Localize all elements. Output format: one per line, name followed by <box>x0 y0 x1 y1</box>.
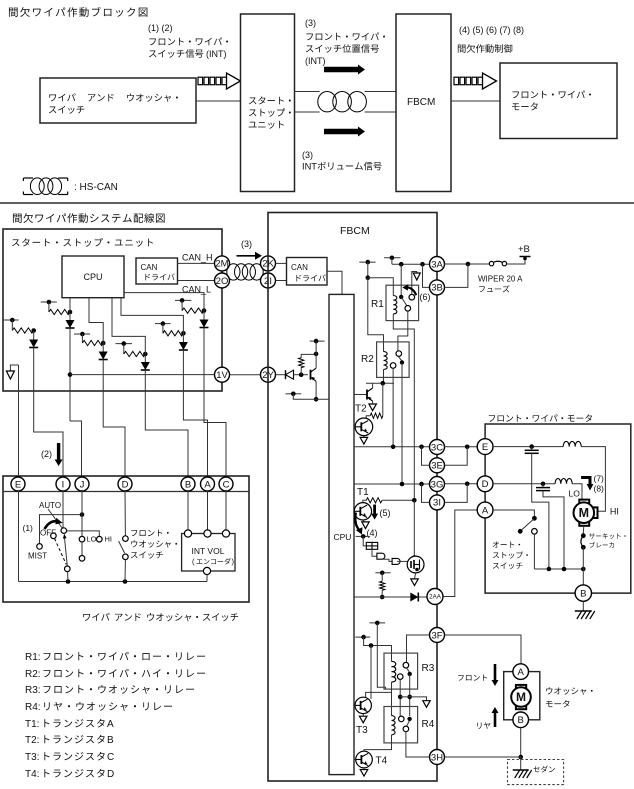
svg-text:3C: 3C <box>431 442 443 453</box>
HI contact <box>97 536 103 542</box>
E line with capacitor <box>493 446 563 448</box>
FBCM box (wiring) <box>268 213 437 782</box>
svg-text:(5): (5) <box>380 508 391 518</box>
T4 emitter ground <box>363 768 365 770</box>
svg-text:R2: R2 <box>361 354 374 365</box>
wire R2 NO to 3C line <box>392 368 394 447</box>
svg-text:T1:: T1: <box>25 719 39 730</box>
encoder grid component <box>363 536 366 546</box>
svg-text:2O: 2O <box>216 276 229 287</box>
svg-text:I: I <box>62 479 65 490</box>
wires B A C to INT VOL <box>187 491 189 530</box>
label rear with arrow <box>477 722 490 729</box>
3C line <box>354 446 430 448</box>
T1 collector resistor <box>363 500 366 502</box>
svg-text:FBCM: FBCM <box>407 97 435 108</box>
R1 NC contact and float marker <box>409 294 415 300</box>
svg-text:R1:: R1: <box>25 652 41 663</box>
wire unit B to J with 1V junction <box>69 328 71 421</box>
T3 emitter ground <box>362 714 364 717</box>
svg-text:HI: HI <box>610 507 619 517</box>
bottom rail <box>19 581 208 583</box>
front washer switch: wire D <box>124 491 126 536</box>
svg-text:INT: INT <box>302 162 317 172</box>
2Y pull-up resistor <box>299 358 304 368</box>
connector 2Y <box>261 367 276 382</box>
output MOSFET <box>413 500 415 557</box>
3G line <box>354 483 430 485</box>
svg-text:R3:: R3: <box>25 685 41 696</box>
wire 3F to R3 contact <box>407 635 430 662</box>
svg-text:M: M <box>516 690 526 704</box>
svg-text:LO: LO <box>87 535 97 544</box>
svg-text:R1: R1 <box>371 299 384 310</box>
R3 coil to T3 and R4 coil <box>366 682 392 698</box>
T2 rail stub <box>366 382 394 384</box>
wire 3E to 3C line (inside) <box>422 447 430 466</box>
3A rail <box>392 263 430 265</box>
INT VOL bottom contact <box>203 567 210 574</box>
svg-text:3H: 3H <box>431 752 443 763</box>
svg-text:CPU: CPU <box>334 532 352 542</box>
dashed line OFF to moving contact <box>55 539 67 565</box>
terminal A <box>477 502 493 518</box>
CAN driver (FBCM) <box>287 258 328 286</box>
wire to LO brush <box>572 484 582 500</box>
auto-stop switch <box>532 516 537 521</box>
R3 rail stub 1 <box>369 622 385 624</box>
connector 3I <box>430 495 445 510</box>
label front with arrow <box>458 674 487 680</box>
transistor T3 <box>355 697 371 713</box>
svg-text:E: E <box>482 442 488 453</box>
wire R2 common to 3G line <box>401 363 403 485</box>
svg-text:3B: 3B <box>431 283 443 294</box>
washer motor M <box>516 685 526 689</box>
arrow right (3) top <box>324 65 365 75</box>
svg-text:B: B <box>185 479 191 490</box>
svg-text:(INT): (INT) <box>206 49 227 59</box>
digital signal symbol 2 <box>454 77 483 85</box>
wire FBCM to front wiper motor <box>451 100 500 102</box>
washer switch lower contact <box>123 554 129 560</box>
svg-text:3G: 3G <box>431 479 444 490</box>
connector E <box>11 477 25 491</box>
svg-text:2M: 2M <box>215 259 228 270</box>
wire stub1 down to R2 coil <box>368 278 384 352</box>
CAN driver (start-stop unit) <box>136 258 178 284</box>
label (5) arrow <box>371 505 378 520</box>
connector B <box>181 477 195 491</box>
svg-text:INT VOL: INT VOL <box>192 546 225 556</box>
svg-text:A: A <box>204 479 211 490</box>
logic buffer 1 <box>372 549 377 556</box>
svg-text:MIST: MIST <box>28 552 47 561</box>
inductor E line <box>563 441 581 446</box>
2Y lower stub <box>286 393 302 395</box>
connector 3A <box>430 257 445 272</box>
svg-text:(7): (7) <box>594 474 605 484</box>
transistor T2 <box>355 418 373 436</box>
T2 driver transistor <box>354 394 367 396</box>
wire A to auto-stop switch <box>493 510 534 516</box>
wire 3C to E with 3E jog <box>445 446 478 448</box>
washer terminal B <box>513 712 529 728</box>
HI rail <box>67 531 100 537</box>
washer terminal A <box>513 664 529 680</box>
svg-text:R3: R3 <box>422 663 435 674</box>
svg-text:D: D <box>122 479 129 490</box>
svg-text:3A: 3A <box>431 259 443 270</box>
R1 rail stub 2 <box>384 257 400 259</box>
R3 contact <box>403 662 409 668</box>
wire stub to T3 collector <box>370 646 372 700</box>
svg-text:(3): (3) <box>305 18 316 28</box>
label auto-stop switch <box>493 541 520 547</box>
connector 1V <box>215 367 230 382</box>
svg-text:R4:: R4: <box>25 702 41 713</box>
svg-text:LO: LO <box>569 489 581 499</box>
front wiper motor M <box>579 500 589 504</box>
connector D <box>118 477 132 491</box>
relay R2 box <box>377 342 410 378</box>
svg-text:(6): (6) <box>420 292 431 302</box>
arrow right INT volume <box>324 127 365 137</box>
svg-text:3E: 3E <box>431 461 443 472</box>
wire 3B to fuse line <box>445 264 468 287</box>
MIST contact <box>37 544 43 550</box>
connector 3C <box>430 440 445 455</box>
pivot contact <box>61 528 67 534</box>
svg-text:WIPER 20 A: WIPER 20 A <box>478 275 523 284</box>
FBCM box (block diagram) <box>396 14 451 192</box>
ground below B <box>582 601 584 611</box>
moving contact <box>65 566 71 572</box>
svg-text:(3): (3) <box>302 150 313 160</box>
svg-text:T4: T4 <box>376 756 388 767</box>
HS-CAN legend <box>23 177 33 179</box>
start-stop unit box (wiring) <box>3 229 222 391</box>
connector I <box>56 477 70 491</box>
svg-text:2AA: 2AA <box>429 594 442 601</box>
svg-text:(2): (2) <box>41 449 52 459</box>
R4 common to 3H <box>406 732 430 757</box>
twisted pair start-stop to FBCM <box>295 91 320 93</box>
svg-text:(4) (5) (6) (7) (8): (4) (5) (6) (7) (8) <box>459 25 524 35</box>
terminal B (front motor) <box>575 585 591 601</box>
2AA stub and resistor <box>375 572 390 574</box>
svg-text:T1: T1 <box>357 487 369 498</box>
2AA line with diode <box>354 596 410 598</box>
svg-text:T3:: T3: <box>25 752 39 763</box>
svg-text:3I: 3I <box>433 498 441 509</box>
connector 3E <box>430 458 445 473</box>
R3 coil <box>392 661 396 682</box>
washer motor box <box>504 672 540 720</box>
svg-text:1V: 1V <box>216 370 228 381</box>
resistor-diode unit D <box>116 343 133 345</box>
T2 base resistor <box>382 383 384 416</box>
wire E to bottom rail <box>18 491 20 582</box>
inductor D line <box>555 479 572 484</box>
wire J through AUTO-rail to LO <box>81 491 83 536</box>
R3 contacts to ground rail <box>399 679 401 716</box>
2Y rail stub <box>310 340 325 342</box>
front wiper motor box <box>485 424 631 593</box>
circuit breaker <box>582 526 585 534</box>
wire unit D to B <box>145 370 188 477</box>
svg-text:CAN: CAN <box>141 263 158 272</box>
svg-text:A: A <box>518 667 525 678</box>
2Y input diode <box>276 374 286 376</box>
CPU (start-stop unit) <box>62 256 124 298</box>
INT VOL encoder box <box>182 534 235 572</box>
wire 2AA to A (auto-stop) <box>443 510 477 597</box>
svg-text:R2:: R2: <box>25 669 41 680</box>
svg-text:CAN_H: CAN_H <box>182 253 213 263</box>
wire unit C to D <box>103 360 125 478</box>
transistor T4 <box>356 751 373 768</box>
svg-text:D: D <box>482 479 489 490</box>
svg-text:(8): (8) <box>594 484 605 494</box>
R4 coil to T4 <box>364 735 392 752</box>
ground symbol start-stop unit <box>10 365 18 371</box>
R2 contact <box>396 351 402 357</box>
digital signal symbol 1 <box>198 77 227 85</box>
svg-text:B: B <box>580 588 586 599</box>
svg-text:E: E <box>15 479 21 490</box>
label circuit breaker <box>589 533 626 539</box>
relay R3 box <box>384 653 418 689</box>
title: wiring diagram <box>13 213 165 223</box>
svg-text:A: A <box>107 719 114 730</box>
resistor-diode unit A <box>3 319 19 321</box>
svg-text:J: J <box>80 479 85 490</box>
label (4) curved arrow <box>355 513 360 531</box>
switch lever to AUTO <box>48 509 63 529</box>
R1 (6) curved arrow <box>407 287 416 295</box>
capacitor 2 <box>542 484 544 488</box>
svg-text:T2: T2 <box>355 404 367 415</box>
svg-text:A: A <box>482 505 489 516</box>
wiper and washer switch box <box>40 78 196 123</box>
connector 3B <box>430 280 445 295</box>
2Y input transistor <box>315 354 317 365</box>
svg-text:C: C <box>107 752 114 763</box>
R1 contact <box>400 264 402 297</box>
connector 2O <box>215 273 230 288</box>
wire 3I to 3G line (inside) <box>422 484 430 502</box>
connector 3G <box>430 477 445 492</box>
svg-text:(3): (3) <box>241 239 252 249</box>
terminal D <box>477 476 493 492</box>
svg-text:R4: R4 <box>422 719 435 730</box>
start-stop unit box <box>241 14 295 192</box>
connector 3F <box>430 628 445 643</box>
svg-text:: HS-CAN: : HS-CAN <box>74 182 118 193</box>
wire E connector <box>18 365 20 477</box>
wire 3F to washer A <box>445 635 522 664</box>
1V line <box>70 374 215 376</box>
label front wiper motor <box>489 414 592 422</box>
wire unit A to I <box>34 348 63 478</box>
connector C <box>219 477 233 491</box>
wire to R1 coil <box>368 278 394 296</box>
R4 contact <box>399 716 405 722</box>
svg-text:C: C <box>223 479 230 490</box>
connector A <box>201 477 215 491</box>
fuse line to +B <box>445 263 490 265</box>
wires 2K 2I to CAN driver <box>276 262 287 264</box>
front wiper motor box (block diagram) <box>500 63 617 139</box>
resistor-diode unit B <box>41 301 57 303</box>
label front washer switch <box>131 529 168 536</box>
svg-text:(INT): (INT) <box>305 56 326 66</box>
svg-text:T2:: T2: <box>25 735 39 746</box>
wiper and washer switch box (wiring) <box>3 476 249 602</box>
wire R1 NO to R2 NC <box>398 311 408 351</box>
CPU box (FBCM) <box>329 294 354 774</box>
svg-text:+B: +B <box>518 244 530 255</box>
svg-text:B: B <box>107 735 114 746</box>
washer switch lever <box>119 541 125 553</box>
R2 coil <box>384 352 388 370</box>
twisted pair 2M-2K <box>227 264 263 280</box>
connector 2I <box>261 273 276 288</box>
svg-text:(1): (1) <box>23 523 34 533</box>
resistor-diode unit F <box>175 299 191 301</box>
T2 emitter ground <box>363 436 365 438</box>
svg-text:D: D <box>107 769 114 780</box>
svg-text:CPU: CPU <box>83 272 102 282</box>
separator line <box>0 202 634 204</box>
auto-stop common rail <box>534 568 583 570</box>
svg-text:M: M <box>579 506 589 520</box>
relay R4 box <box>384 707 418 743</box>
svg-text:T3: T3 <box>356 725 368 736</box>
svg-text:AUTO: AUTO <box>39 501 61 510</box>
CAN_L wire and label <box>178 280 215 282</box>
label washer motor <box>546 687 592 695</box>
wire unit F to C <box>204 328 226 478</box>
title: block diagram <box>9 7 147 17</box>
R1 rail stub 1 <box>359 261 375 263</box>
D line with capacitor <box>493 483 555 485</box>
AUTO rail to MIST <box>40 515 83 544</box>
svg-text:FBCM: FBCM <box>340 225 370 237</box>
connector J <box>75 477 89 491</box>
R4 coil <box>392 716 396 735</box>
resistor-diode unit C <box>74 333 90 335</box>
wire 3G to D with 3I jog <box>445 483 478 485</box>
wire washer B to 3H <box>520 728 522 757</box>
wire rail to 3B <box>423 264 430 287</box>
connector 2AA <box>427 589 443 605</box>
T1 emitter node <box>356 535 371 537</box>
svg-text:HI: HI <box>105 535 113 544</box>
svg-text:T4:: T4: <box>25 769 39 780</box>
resistor-diode unit E <box>155 323 171 325</box>
wire R1 coil to T1 resistor line <box>393 321 414 501</box>
svg-text:3F: 3F <box>431 630 442 641</box>
wire I to pivot <box>62 491 64 528</box>
LO contact and stub <box>79 536 85 542</box>
wire CAN driver to CPU <box>327 271 342 294</box>
svg-text:CAN: CAN <box>291 263 308 272</box>
svg-text:(1) (2): (1) (2) <box>148 23 173 33</box>
label (7)(8) arrow <box>581 478 590 486</box>
connector 2K <box>261 256 276 271</box>
moving contact arm with arrow <box>65 538 68 566</box>
T1 emitter marker <box>363 520 365 522</box>
wire to HI brush <box>581 447 605 512</box>
capacitor 1 <box>531 447 533 451</box>
wire switch to start-stop unit <box>196 100 241 102</box>
connector 3H <box>430 750 445 765</box>
wire unit E to A <box>183 350 207 477</box>
label wiper and washer switch <box>83 613 109 621</box>
R3 rail stub 2 <box>355 636 370 638</box>
svg-text:B: B <box>518 715 524 726</box>
terminal E <box>477 439 493 455</box>
sedan ground <box>520 757 522 770</box>
R1 coil <box>393 296 397 314</box>
MOSFET source ground <box>415 573 416 579</box>
relay R1 box <box>386 285 419 320</box>
connector 2M <box>215 256 230 271</box>
wire 1V to 2Y <box>230 374 261 376</box>
logic buffer 2 <box>382 559 392 561</box>
